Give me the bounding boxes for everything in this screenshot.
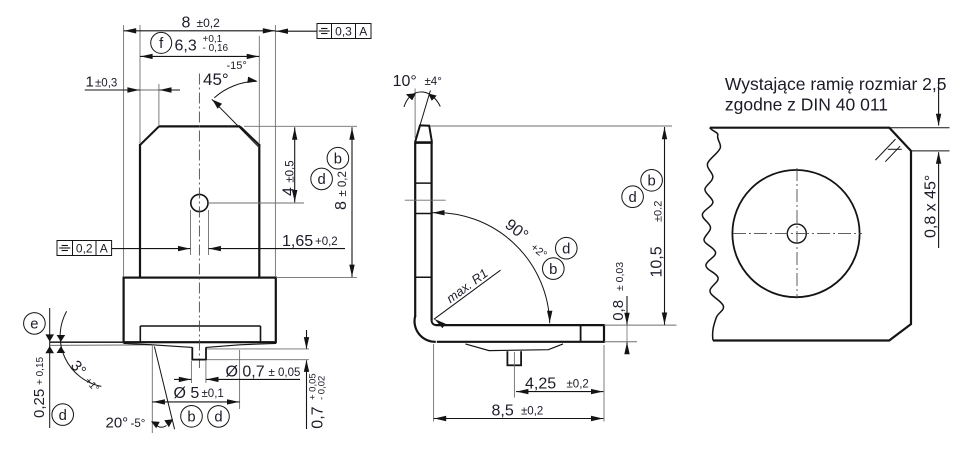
dimension 3deg +1deg with arc — [57, 311, 102, 394]
left view conical bottom face lines — [50, 343, 276, 347]
svg-text:10°: 10° — [393, 73, 417, 90]
svg-text:8,5: 8,5 — [492, 402, 514, 419]
svg-text:20°: 20° — [106, 415, 129, 432]
chamfer reference lines — [890, 128, 950, 151]
leader 2,5 down arrow — [936, 79, 941, 126]
bracket vertical arm tip taper — [415, 125, 432, 141]
max. R1 leader and text — [434, 266, 501, 329]
circled d label left bottom — [52, 404, 74, 426]
svg-text:- 0,16: - 0,16 — [203, 43, 229, 54]
circled e label — [24, 313, 46, 335]
svg-text:±0,1: ±0,1 — [202, 388, 224, 400]
svg-text:d: d — [59, 408, 67, 424]
flange top extension to right — [276, 277, 357, 279]
chamfer hatch marks — [875, 139, 901, 162]
svg-text:- 0,02: - 0,02 — [317, 376, 328, 400]
svg-text:0,3: 0,3 — [335, 25, 352, 39]
dimension diameter 0,7 +/-0,05 — [174, 364, 300, 383]
feature control frame 0,3 A with leader — [275, 24, 371, 39]
bracket vertical arm edges — [415, 143, 431, 321]
dimension 10deg +/-4deg — [393, 73, 442, 138]
small center hole circle — [787, 224, 806, 243]
svg-text:d: d — [317, 172, 325, 188]
dimension 10,5 +/-0.2 — [648, 127, 667, 325]
extension line trapezoid top to right — [244, 125, 357, 127]
svg-text:±0,2: ±0,2 — [197, 16, 221, 30]
svg-text:+0,2: +0,2 — [315, 236, 338, 248]
svg-text:-5°: -5° — [131, 418, 146, 430]
svg-text:0,7: 0,7 — [310, 406, 327, 428]
bracket taper base thick line — [414, 141, 433, 144]
dimension 0,7 +0,05/-0,02 vertical — [304, 330, 328, 429]
svg-text:0,8 x 45°: 0,8 x 45° — [923, 175, 940, 238]
dimension 0,8 x 45deg — [923, 152, 942, 248]
svg-text:-15°: -15° — [227, 60, 247, 72]
extension lines top (8 and 6,3 dims) — [124, 25, 276, 277]
dimension 1 +/-0,3 — [85, 74, 180, 127]
svg-text:±0.2: ±0.2 — [652, 201, 664, 222]
svg-text:8: 8 — [182, 15, 191, 32]
svg-text:A: A — [359, 25, 367, 39]
svg-text:A: A — [100, 242, 108, 256]
svg-text:+ 0,15: + 0,15 — [35, 356, 46, 385]
svg-text:± 0,05: ± 0,05 — [269, 367, 301, 379]
svg-text:Wystające ramię rozmiar 2,5: Wystające ramię rozmiar 2,5 — [725, 74, 947, 94]
dimension 8,5 +/-0,2 — [434, 344, 604, 422]
circled b and d labels bottom — [181, 406, 230, 428]
circled b and d labels mid — [311, 147, 349, 189]
svg-text:6,3: 6,3 — [175, 38, 197, 55]
dimension 4,25 +/-0,2 — [516, 345, 604, 422]
circled b and d labels middle right — [622, 170, 663, 208]
hole center reference line — [208, 202, 304, 204]
plate outline with break line — [702, 128, 911, 341]
svg-text:1: 1 — [86, 74, 94, 91]
dimension 20deg -5deg with arc — [106, 415, 174, 432]
bracket pin centerline — [513, 352, 515, 398]
bracket pin — [507, 351, 523, 365]
circled d and b labels arc — [543, 237, 578, 279]
note text Wystajace ramie — [725, 74, 947, 115]
left view hole circle — [191, 194, 208, 211]
dimension 45deg -15deg with arc — [203, 60, 258, 147]
extension lines diameter 0,7 — [191, 361, 206, 383]
left view body outline (cylindrical body with chamfered top) — [140, 126, 259, 277]
svg-text:d: d — [562, 241, 570, 257]
svg-text:± 0,03: ± 0,03 — [614, 262, 626, 291]
svg-text:±0,2: ±0,2 — [567, 379, 589, 391]
dimension 8 +/-0,2 top — [124, 15, 276, 34]
large circle — [732, 170, 859, 297]
svg-text:b: b — [334, 151, 342, 167]
extension line arm tip top right — [431, 125, 673, 127]
left view flange inner step lines — [140, 326, 260, 342]
crosshair centerlines — [733, 168, 862, 299]
dimension 90deg +2deg arc — [432, 210, 553, 323]
svg-text:b: b — [187, 409, 195, 425]
svg-text:Ø 5: Ø 5 — [174, 385, 200, 402]
bracket arm section tick — [580, 325, 582, 342]
svg-text:±0,3: ±0,3 — [95, 78, 117, 90]
svg-text:d: d — [628, 190, 636, 206]
dimension 8 +/-0,2 vertical — [333, 127, 355, 277]
left view flange rectangle — [124, 278, 276, 343]
dimension diameter 5 +/-0,1 — [152, 385, 239, 405]
bracket outer corner radius — [415, 316, 436, 342]
dimension 4 +/-0,5 vertical — [280, 127, 297, 202]
bracket horizontal arm lines — [436, 324, 605, 343]
pin top and bottom reference lines — [207, 349, 309, 360]
svg-text:Ø 0,7: Ø 0,7 — [226, 364, 265, 381]
svg-text:0,8: 0,8 — [610, 300, 627, 321]
svg-text:zgodne z DIN 40 011: zgodne z DIN 40 011 — [725, 95, 888, 115]
dimension 0,8 +/-0,03 — [610, 262, 630, 354]
left view vertical centerline — [198, 74, 200, 369]
svg-text:e: e — [30, 317, 38, 333]
bracket inner corner radius — [432, 321, 436, 326]
extension arm bottom right — [604, 341, 637, 343]
svg-text:±4°: ±4° — [425, 76, 442, 88]
svg-text:0,25: 0,25 — [31, 389, 48, 418]
dimension 6,3 +0,1/-0,16 — [140, 34, 259, 59]
extension lines diameter 5 — [152, 345, 239, 433]
circled f label — [151, 32, 172, 53]
svg-text:45°: 45° — [203, 70, 229, 89]
bracket bottom pad outline — [465, 344, 563, 351]
svg-text:4,25: 4,25 — [525, 376, 556, 393]
dimension 1,65 +0,2 with extensions — [191, 210, 346, 255]
left view pin — [191, 347, 207, 359]
svg-text:10,5: 10,5 — [648, 246, 665, 277]
svg-text:b: b — [647, 173, 655, 189]
bracket vertical arm tick marks — [415, 183, 431, 277]
dimension 0,25 +0,15 vertical extension — [31, 308, 54, 428]
left view 20deg slant construction line — [154, 347, 174, 430]
svg-text:b: b — [549, 262, 557, 278]
svg-text:1,65: 1,65 — [282, 233, 313, 250]
left view flange bottom plane extension — [50, 341, 124, 343]
svg-text:±0,2: ±0,2 — [521, 406, 543, 418]
bracket seating reference line — [405, 199, 446, 201]
svg-text:0,2: 0,2 — [76, 242, 93, 256]
feature control frame 0,2 A with leader — [57, 241, 191, 256]
extension arm top surface right — [604, 324, 677, 326]
svg-text:d: d — [214, 410, 222, 426]
